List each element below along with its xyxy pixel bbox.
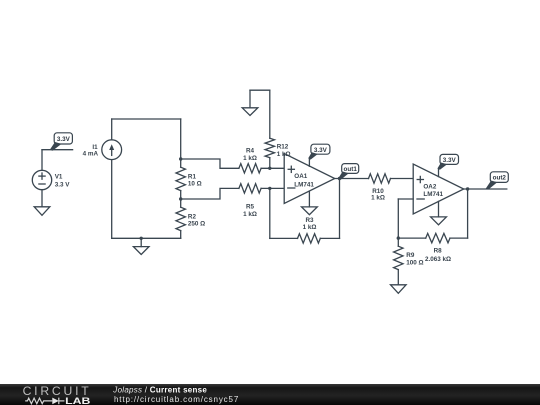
svg-text:100 Ω: 100 Ω bbox=[406, 260, 423, 267]
svg-text:LAB: LAB bbox=[65, 396, 91, 405]
svg-text:out2: out2 bbox=[493, 175, 507, 182]
svg-text:1 kΩ: 1 kΩ bbox=[371, 194, 385, 201]
svg-text:R2: R2 bbox=[188, 213, 197, 220]
svg-text:1 kΩ: 1 kΩ bbox=[243, 155, 257, 162]
svg-text:Jolapss / Current sense: Jolapss / Current sense bbox=[112, 386, 207, 395]
svg-text:250 Ω: 250 Ω bbox=[188, 221, 205, 228]
svg-text:R4: R4 bbox=[246, 147, 255, 154]
svg-text:1 kΩ: 1 kΩ bbox=[303, 224, 317, 231]
svg-text:R8: R8 bbox=[434, 247, 443, 254]
svg-text:3.3 V: 3.3 V bbox=[55, 181, 71, 188]
svg-text:R9: R9 bbox=[406, 252, 415, 259]
svg-text:LM741: LM741 bbox=[294, 181, 314, 188]
svg-text:1 kΩ: 1 kΩ bbox=[277, 151, 291, 158]
svg-text:R5: R5 bbox=[246, 204, 255, 211]
svg-text:3.3V: 3.3V bbox=[57, 136, 71, 143]
svg-text:2.063 kΩ: 2.063 kΩ bbox=[425, 256, 451, 263]
svg-text:R1: R1 bbox=[188, 173, 197, 180]
svg-text:V1: V1 bbox=[55, 173, 63, 180]
svg-text:1 kΩ: 1 kΩ bbox=[243, 211, 257, 218]
svg-text:10 Ω: 10 Ω bbox=[188, 181, 202, 188]
svg-text:4 mA: 4 mA bbox=[83, 150, 99, 157]
svg-text:OA1: OA1 bbox=[294, 173, 307, 180]
svg-text:3.3V: 3.3V bbox=[443, 157, 457, 164]
svg-text:R12: R12 bbox=[277, 144, 289, 151]
svg-text:out1: out1 bbox=[344, 166, 358, 173]
svg-text:OA2: OA2 bbox=[423, 183, 436, 190]
svg-text:LM741: LM741 bbox=[423, 191, 443, 198]
svg-text:3.3V: 3.3V bbox=[314, 147, 328, 154]
svg-text:http://circuitlab.com/csnyc57: http://circuitlab.com/csnyc57 bbox=[114, 395, 239, 404]
